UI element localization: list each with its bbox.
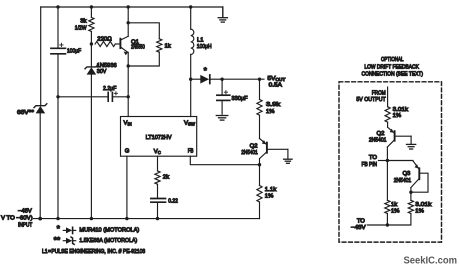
svg-text:Q2: Q2 bbox=[250, 144, 258, 150]
resistor 3.9k 1% bbox=[257, 79, 262, 139]
svg-text:2k: 2k bbox=[163, 174, 169, 180]
svg-text:L1 = PULSE ENGINEERING, INC. #: L1 = PULSE ENGINEERING, INC. # PE-92108 bbox=[42, 249, 146, 255]
plus sign of 100uF bbox=[60, 43, 63, 46]
wire top rail bbox=[41, 6, 223, 8]
node dot bottom rail at 100uF bbox=[56, 217, 59, 220]
transistor Q3 2N5401 diode connected PNP bbox=[411, 161, 428, 193]
node dot top rail at 3k bbox=[90, 5, 93, 8]
svg-text:1%: 1% bbox=[393, 113, 402, 119]
svg-text:VSW: VSW bbox=[184, 120, 195, 126]
ground below 330uF bbox=[216, 116, 228, 121]
svg-text:1%: 1% bbox=[266, 109, 275, 115]
svg-text:330µF: 330µF bbox=[232, 96, 248, 102]
svg-text:L1: L1 bbox=[197, 38, 204, 44]
svg-text:3.01k: 3.01k bbox=[393, 107, 408, 113]
svg-text:1%: 1% bbox=[391, 209, 400, 215]
svg-text:Q3: Q3 bbox=[402, 171, 411, 177]
svg-text:Q2: Q2 bbox=[377, 131, 385, 137]
node dot at 330uF tap bbox=[220, 78, 223, 81]
resistor 220 ohm bbox=[95, 41, 115, 46]
dashed box bbox=[339, 82, 442, 242]
node dot Q3 collector base loop bbox=[409, 191, 412, 194]
node dot top rail at L1 bbox=[189, 5, 192, 8]
svg-text:1/2W: 1/2W bbox=[75, 25, 87, 31]
svg-text:CONNECTION (SEE TEXT): CONNECTION (SEE TEXT) bbox=[362, 72, 424, 78]
node dot 1k bottom bbox=[386, 223, 389, 226]
zener diode 1N5936 30V bbox=[85, 44, 98, 219]
svg-text:2N5401: 2N5401 bbox=[241, 150, 258, 156]
node dot VSW diode junction bbox=[189, 78, 192, 81]
node dot VIN junction bbox=[127, 95, 130, 98]
svg-text:1.1k: 1.1k bbox=[265, 187, 277, 193]
svg-text:FROM: FROM bbox=[372, 91, 386, 97]
wire Q1 collector to top rail bbox=[127, 7, 129, 36]
resistor 3k 1/2W bbox=[89, 7, 94, 44]
svg-text:FB: FB bbox=[188, 149, 194, 155]
svg-text:0.22: 0.22 bbox=[168, 198, 178, 204]
wire bottom rail bbox=[34, 218, 260, 220]
svg-text:VIN: VIN bbox=[124, 120, 132, 126]
node dot 3k / 220ohm / zener junction bbox=[90, 42, 93, 45]
svg-text:2N5550: 2N5550 bbox=[131, 44, 145, 50]
capacitor 330uF bbox=[217, 79, 230, 114]
svg-text:68V**: 68V** bbox=[17, 110, 35, 116]
svg-text:TO: TO bbox=[369, 155, 377, 161]
svg-text:MUR410 (MOTOROLA): MUR410 (MOTOROLA) bbox=[79, 227, 139, 233]
wire 3.01k to Q2 emitter bbox=[387, 122, 389, 127]
wire Q2 collector down bbox=[259, 159, 261, 186]
node dot collector 1k tap bbox=[127, 21, 130, 24]
svg-text:3.01k: 3.01k bbox=[415, 202, 431, 208]
wire emitter node to VIN pin bbox=[127, 66, 129, 117]
wire Q3 collector node bbox=[410, 188, 412, 201]
node dot emitter junction bbox=[127, 64, 130, 67]
node dot bottom rail at VC branch bbox=[156, 217, 159, 220]
svg-text:1%: 1% bbox=[415, 209, 424, 215]
node dot TO FB PIN junction bbox=[386, 159, 389, 162]
svg-text:−48V: −48V bbox=[351, 225, 366, 231]
wire output node bbox=[222, 78, 264, 80]
svg-text:**: ** bbox=[54, 235, 61, 245]
wire bypass rail bbox=[58, 96, 107, 98]
ground at Q2 base bbox=[284, 149, 293, 163]
wire Q1 emitter down bbox=[127, 52, 129, 66]
ground top right bbox=[218, 7, 227, 22]
svg-text:OPTIONAL: OPTIONAL bbox=[381, 57, 404, 63]
resistor 3.01k 1% top bbox=[385, 107, 390, 122]
capacitor 100uF bbox=[51, 7, 66, 219]
node dot at 3.9k tap bbox=[258, 78, 261, 81]
wire from 5V output bbox=[387, 87, 389, 107]
svg-text:TO: TO bbox=[357, 218, 365, 224]
zener symbol 1.5KE68A legend bbox=[63, 237, 75, 244]
wire E pin to bottom rail bbox=[126, 156, 128, 218]
node dot top rail at 100uF bbox=[56, 5, 59, 8]
svg-text:LOW DRIFT FEEDBACK: LOW DRIFT FEEDBACK bbox=[364, 64, 419, 70]
svg-text:LT1072HV: LT1072HV bbox=[146, 135, 172, 141]
transistor Q2 2N5401 PNP bbox=[260, 138, 288, 158]
zener diode 68V (1.5KE68A) bbox=[34, 104, 47, 114]
node dot bottom rail at E branch bbox=[125, 217, 128, 220]
wire FB pin to Q2 collector bbox=[190, 156, 259, 165]
svg-text:5VOUT: 5VOUT bbox=[268, 76, 286, 82]
plus sign of 2.2uF bbox=[114, 92, 117, 95]
svg-text:2.2µF: 2.2µF bbox=[103, 86, 117, 92]
resistor 2k bbox=[155, 171, 160, 184]
plus sign of 330uF bbox=[224, 91, 227, 94]
wire 1k bottom to emitter node bbox=[128, 52, 159, 66]
diode symbol MUR410 legend bbox=[63, 227, 75, 233]
wire stub from FB label bbox=[378, 160, 387, 162]
svg-text:SeekIC.com: SeekIC.com bbox=[404, 255, 458, 267]
capacitor 2.2uF bbox=[108, 92, 128, 101]
svg-text:100µF: 100µF bbox=[67, 49, 81, 55]
svg-text:−48V: −48V bbox=[18, 208, 32, 214]
node dot FB junction bbox=[258, 163, 261, 166]
svg-text:0.5A: 0.5A bbox=[269, 83, 282, 89]
svg-text:INPUT: INPUT bbox=[18, 223, 33, 229]
node dot input terminal bbox=[38, 217, 42, 221]
node dot bottom rail at zener branch bbox=[90, 217, 93, 220]
svg-text:1k: 1k bbox=[391, 202, 397, 208]
wire 220ohm to Q1 base bbox=[115, 43, 120, 45]
svg-text:1%: 1% bbox=[265, 194, 274, 200]
capacitor 0.22 bbox=[151, 184, 166, 218]
svg-text:30V: 30V bbox=[97, 69, 107, 75]
svg-text:100µH: 100µH bbox=[197, 44, 212, 50]
resistor 1k across Q1 bbox=[157, 39, 162, 52]
wire 1.1k to bottom rail bbox=[259, 202, 261, 219]
svg-text:V TO −60V): V TO −60V) bbox=[1, 216, 33, 222]
wire to -48V rail bbox=[368, 214, 411, 226]
svg-text:FB PIN: FB PIN bbox=[362, 162, 378, 168]
resistor 3.01k 1% bottom bbox=[408, 200, 413, 213]
transistor Q2 2N5401 optional PNP bbox=[387, 127, 411, 147]
wire FB node down to 1k bbox=[386, 161, 388, 201]
node dot top rail at Q1 collector bbox=[127, 5, 130, 8]
wire FB node to Q3 emitter bbox=[387, 160, 413, 162]
svg-text:1k: 1k bbox=[165, 43, 171, 49]
svg-text:VC: VC bbox=[154, 149, 161, 155]
wire VC branch bbox=[157, 156, 159, 171]
resistor 1k 1% optional bbox=[385, 200, 390, 213]
svg-text:2N5401: 2N5401 bbox=[394, 178, 412, 184]
node dot bypass rail at 100uF branch bbox=[56, 95, 59, 98]
transistor Q1 2N5550 NPN bbox=[120, 36, 128, 55]
ground at optional Q2 base bbox=[407, 136, 416, 149]
svg-text:1.5KE68A (MOTOROLA): 1.5KE68A (MOTOROLA) bbox=[79, 238, 137, 244]
wire left vertical input branch bbox=[39, 7, 42, 219]
svg-text:G: G bbox=[125, 149, 130, 155]
diode MUR410 catch diode bbox=[191, 75, 222, 84]
op-amp U1 LT1072HV box bbox=[121, 117, 197, 157]
svg-text:2N5401: 2N5401 bbox=[369, 137, 387, 143]
wire collector tap to 1k bbox=[128, 23, 159, 39]
inductor L1 100uH bbox=[191, 7, 194, 117]
svg-text:220Ω: 220Ω bbox=[97, 36, 112, 42]
svg-text:3.9k: 3.9k bbox=[266, 102, 280, 108]
svg-text:3k: 3k bbox=[80, 19, 86, 25]
resistor 1.1k 1% bbox=[257, 186, 262, 203]
svg-text:5V OUTPUT: 5V OUTPUT bbox=[356, 97, 386, 103]
wire Q2 collector to FB node bbox=[386, 147, 388, 161]
